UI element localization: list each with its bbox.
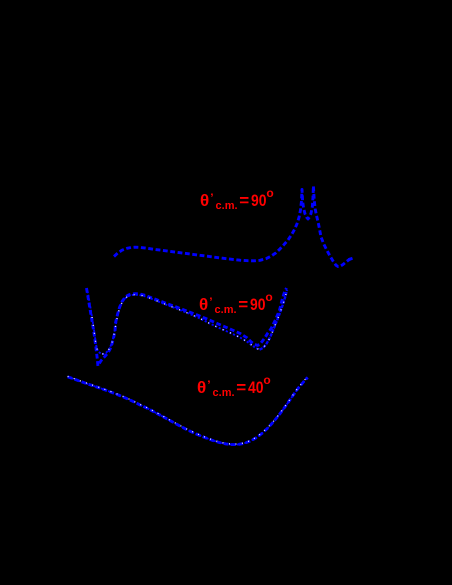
label 2: theta'cm = 90deg (middle curve) — [199, 291, 273, 316]
curve 2 dashed rise from V bottom — [99, 288, 286, 364]
label 1: theta'cm = 90deg (top curve) — [200, 187, 274, 212]
curve 2 companion dotted blue (shallow U dip) — [88, 291, 260, 354]
curve 3 white dotted specks — [68, 376, 308, 444]
curve 3 bottom dashed blue (theta'cm = 40 deg) — [68, 377, 308, 445]
curve 2 white dotted specks — [92, 290, 287, 354]
label 3: theta'cm = 40deg (bottom curve) — [197, 374, 271, 399]
curve 2 middle dashed blue (theta'cm = 90 deg, deep V dip) — [87, 288, 99, 367]
curve 1 final dash stub — [349, 258, 353, 259]
curve 2 companion dotted blue rise segment — [260, 290, 288, 350]
curve 3 companion dotted blue — [68, 377, 308, 445]
curve 1 top dashed blue (theta'cm = 90 deg, with double spike) — [114, 186, 352, 267]
